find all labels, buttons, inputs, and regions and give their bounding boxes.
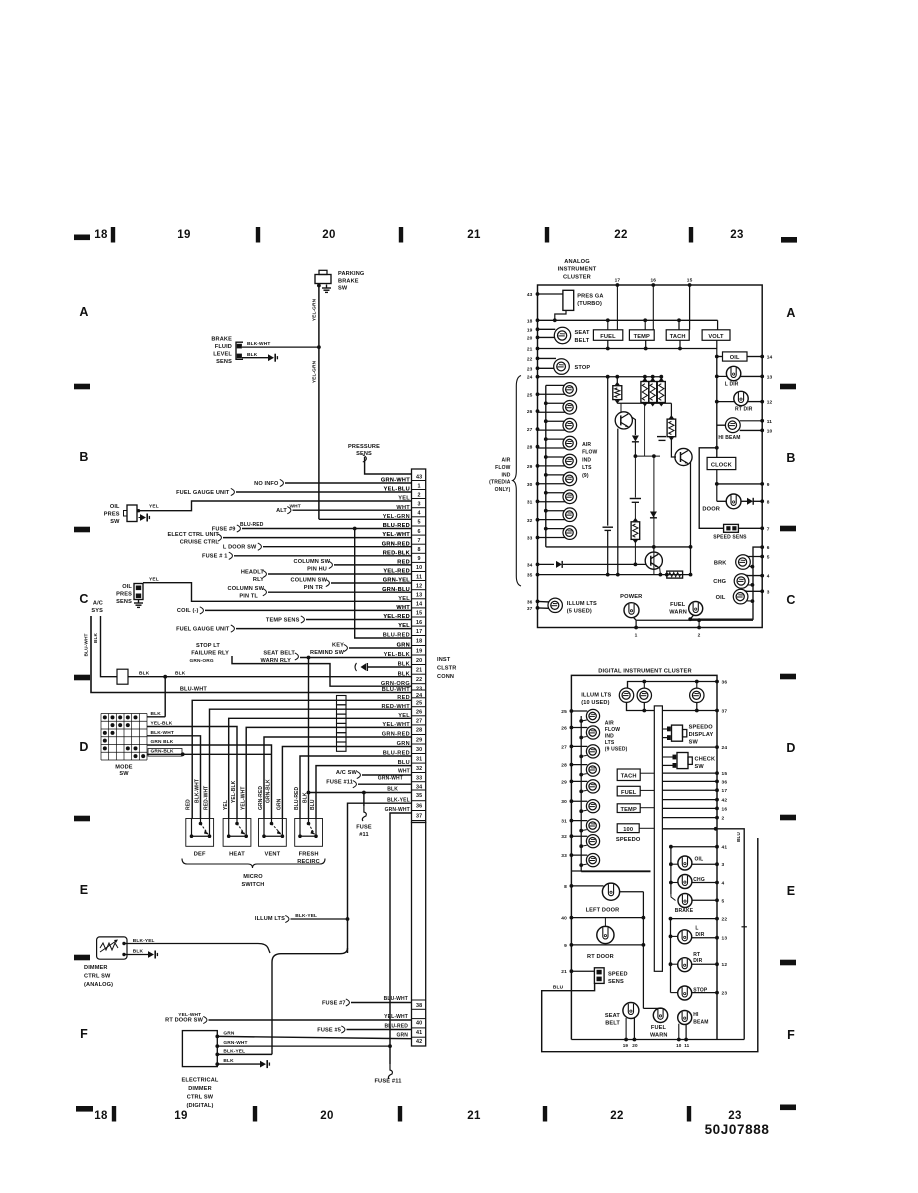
svg-text:HI BEAM: HI BEAM	[718, 435, 740, 441]
svg-text:ALT: ALT	[276, 508, 287, 514]
digital 100 SPEEDO box	[617, 824, 639, 833]
door lamp	[726, 494, 741, 509]
pin 17 line	[662, 789, 717, 791]
svg-text:15: 15	[722, 771, 728, 777]
svg-text:STOP: STOP	[693, 988, 708, 994]
svg-text:STOP: STOP	[575, 365, 591, 371]
pin 14 cell	[412, 598, 426, 600]
digital L DIR lamp	[678, 930, 692, 944]
pin 2 line	[662, 817, 717, 819]
svg-text:BLU: BLU	[553, 985, 564, 991]
svg-text:36: 36	[416, 804, 422, 810]
seat belt lamp	[554, 327, 570, 343]
pin 22 cell	[412, 673, 426, 675]
pin 11 cell	[412, 571, 426, 573]
svg-text:COIL (-): COIL (-)	[177, 608, 199, 614]
pin 5 cell	[412, 516, 426, 518]
svg-text:BLK: BLK	[223, 1058, 234, 1064]
micro switch VENT	[259, 819, 287, 847]
svg-text:36: 36	[527, 599, 533, 605]
pin 41 line	[671, 846, 717, 848]
svg-text:RED: RED	[397, 560, 410, 566]
svg-text:34: 34	[527, 562, 533, 568]
svg-text:BLK: BLK	[175, 671, 186, 677]
svg-text:FUSE #11: FUSE #11	[374, 1079, 401, 1085]
svg-text:GRN-ORG: GRN-ORG	[381, 681, 410, 687]
pin 13 cell	[412, 589, 426, 591]
svg-text:32: 32	[416, 766, 422, 772]
svg-text:FAILURE RLY: FAILURE RLY	[191, 651, 229, 657]
svg-text:D: D	[786, 741, 795, 755]
svg-text:OIL: OIL	[122, 584, 132, 590]
svg-text:30: 30	[416, 747, 422, 753]
connector INST CLSTR CONN lower body	[412, 823, 426, 1047]
row dashes left	[74, 384, 90, 390]
svg-text:42: 42	[416, 1039, 422, 1045]
wire pin 10	[334, 564, 412, 566]
svg-text:21: 21	[416, 667, 422, 673]
wire pin 36 BLK-YEL to illum lts	[348, 803, 412, 953]
svg-text:SW: SW	[119, 771, 129, 777]
svg-text:CLOCK: CLOCK	[711, 462, 733, 468]
svg-text:COLUMN SW: COLUMN SW	[291, 577, 328, 583]
svg-text:5: 5	[722, 898, 725, 904]
svg-text:BLU-RED: BLU-RED	[294, 787, 300, 810]
svg-text:21: 21	[561, 969, 567, 975]
svg-text:100: 100	[623, 827, 633, 833]
svg-text:19: 19	[527, 327, 533, 333]
digital air flow lamps	[580, 716, 582, 872]
svg-text:ILLUM LTS: ILLUM LTS	[581, 693, 611, 699]
svg-text:42: 42	[722, 798, 728, 804]
micro switch FRESH RECIRC	[295, 819, 323, 847]
wire BLK elect dimmer to ground	[215, 1062, 219, 1066]
svg-text:BLK: BLK	[133, 949, 144, 955]
svg-text:B: B	[786, 451, 795, 465]
svg-text:YEL: YEL	[149, 576, 159, 582]
svg-text:16: 16	[650, 278, 656, 284]
parking brake switch	[315, 275, 331, 284]
svg-text:31: 31	[527, 499, 533, 505]
svg-text:29: 29	[416, 737, 422, 743]
svg-text:26: 26	[527, 409, 533, 415]
svg-text:YEL-BLK: YEL-BLK	[384, 652, 410, 658]
svg-text:PRES: PRES	[116, 591, 132, 597]
wire GRN elect dimmer to pin 42	[215, 1035, 219, 1039]
svg-text:40: 40	[561, 916, 567, 922]
svg-text:18: 18	[94, 1110, 108, 1122]
svg-text:(10 USED): (10 USED)	[581, 700, 609, 706]
svg-text:26: 26	[416, 710, 422, 716]
digital air flow lamp 6	[586, 800, 599, 813]
svg-text:CLSTR: CLSTR	[437, 666, 456, 672]
wire BLK A/C sys to pin 22	[101, 616, 412, 677]
svg-text:LEVEL: LEVEL	[213, 351, 232, 357]
svg-text:BLK: BLK	[139, 671, 150, 677]
digital air flow lamp 8	[586, 835, 599, 848]
svg-text:3: 3	[418, 501, 421, 507]
svg-text:L DIR: L DIR	[725, 382, 739, 388]
svg-text:50J07888: 50J07888	[705, 1122, 770, 1137]
svg-text:GRN: GRN	[223, 1030, 234, 1036]
row dashes right	[780, 384, 796, 390]
svg-text:LEFT DOOR: LEFT DOOR	[586, 908, 620, 914]
svg-text:GRN-WHT: GRN-WHT	[381, 478, 410, 484]
svg-text:21: 21	[467, 229, 481, 241]
svg-text:BLU-RED: BLU-RED	[240, 522, 264, 528]
svg-text:PRES: PRES	[104, 511, 120, 517]
svg-text:1: 1	[635, 633, 638, 639]
svg-text:30: 30	[527, 482, 533, 488]
svg-text:F: F	[80, 1027, 88, 1041]
pin 31 cell	[412, 753, 426, 755]
svg-text:RED-WHT: RED-WHT	[204, 786, 210, 810]
svg-text:14: 14	[767, 355, 773, 361]
svg-text:GRN: GRN	[397, 643, 410, 649]
svg-text:GRN-RED: GRN-RED	[258, 786, 264, 810]
wire from illum down to dimmer curve	[272, 948, 348, 1050]
svg-text:7: 7	[418, 538, 421, 544]
svg-text:COLUMN SW: COLUMN SW	[228, 586, 265, 592]
svg-text:SEAT BELT: SEAT BELT	[263, 651, 295, 657]
speed sens analog	[724, 524, 739, 532]
svg-text:35: 35	[416, 793, 422, 799]
svg-text:ANALOG: ANALOG	[564, 259, 590, 265]
svg-text:RED-BLK: RED-BLK	[383, 550, 410, 556]
wire BLK-YEL elect dimmer	[215, 1053, 219, 1057]
svg-text:YEL: YEL	[398, 713, 410, 719]
pin 26 cell	[412, 706, 426, 708]
svg-text:YEL: YEL	[398, 596, 410, 602]
analog cluster box	[538, 285, 763, 628]
svg-text:FLOW: FLOW	[495, 465, 510, 471]
svg-text:DIR: DIR	[693, 958, 702, 964]
wire pin 31 to micro switch	[300, 756, 412, 819]
svg-text:WHT: WHT	[398, 769, 410, 775]
rail pin 21	[538, 348, 717, 350]
wire pin 37 GRN-WHT down to dimmer	[390, 813, 412, 1046]
svg-text:24: 24	[527, 375, 533, 381]
svg-text:FUEL GAUGE UNIT: FUEL GAUGE UNIT	[176, 490, 230, 496]
svg-text:18: 18	[416, 638, 422, 644]
air flow lamp 8	[563, 508, 577, 522]
svg-text:DIR: DIR	[695, 932, 704, 938]
ILLUM LTS lamp analog	[548, 598, 562, 612]
svg-text:(ANALOG): (ANALOG)	[84, 982, 113, 988]
svg-text:23: 23	[730, 229, 743, 241]
pin 4 cell	[412, 507, 426, 509]
svg-text:FUSE #7: FUSE #7	[322, 1000, 346, 1006]
svg-text:STOP LT: STOP LT	[196, 643, 220, 649]
digital OIL lamp	[678, 856, 692, 870]
svg-text:FRESH: FRESH	[299, 852, 319, 858]
rail pin 18	[538, 319, 718, 321]
svg-text:BLU-RED: BLU-RED	[383, 751, 410, 757]
svg-text:33: 33	[527, 536, 533, 542]
svg-text:C: C	[79, 592, 88, 606]
svg-text:ILLUM LTS: ILLUM LTS	[567, 601, 597, 607]
svg-text:(DIGITAL): (DIGITAL)	[186, 1103, 213, 1109]
fuse #11 bottom	[389, 1046, 391, 1064]
svg-text:21: 21	[527, 347, 533, 353]
svg-text:#11: #11	[359, 832, 368, 838]
svg-text:SENS: SENS	[116, 599, 132, 605]
svg-text:MODE: MODE	[115, 764, 133, 770]
meter TACH	[666, 330, 689, 341]
svg-text:CHG: CHG	[713, 579, 726, 585]
svg-text:20: 20	[632, 1043, 638, 1048]
svg-text:19: 19	[174, 1110, 187, 1122]
digital TACH box	[617, 769, 640, 781]
svg-text:BLU-RED: BLU-RED	[383, 523, 410, 529]
svg-text:GRN: GRN	[396, 1033, 408, 1039]
svg-text:OIL: OIL	[730, 355, 740, 361]
svg-text:BLU: BLU	[310, 799, 316, 810]
svg-text:9: 9	[418, 556, 421, 562]
svg-text:BLK: BLK	[303, 792, 309, 803]
svg-text:IND: IND	[605, 734, 614, 740]
svg-text:19: 19	[416, 648, 422, 654]
speedo display sw	[662, 728, 668, 730]
svg-text:BLK-WHT: BLK-WHT	[151, 730, 174, 736]
svg-text:GRN-RED: GRN-RED	[382, 541, 410, 547]
svg-text:37: 37	[722, 709, 728, 715]
BRK lamp	[736, 555, 751, 570]
svg-text:37: 37	[416, 813, 422, 819]
svg-text:CHECK: CHECK	[695, 757, 716, 763]
svg-text:21: 21	[467, 1110, 481, 1122]
svg-text:YEL-RED: YEL-RED	[383, 569, 410, 575]
pin 15 cell	[412, 607, 426, 609]
svg-text:29: 29	[561, 779, 567, 785]
svg-text:YEL: YEL	[149, 504, 159, 510]
svg-text:28: 28	[416, 728, 422, 734]
svg-text:12: 12	[767, 400, 773, 406]
svg-text:PIN TL: PIN TL	[239, 594, 258, 600]
wire pin 35 BLK	[309, 792, 412, 794]
wire pin 27 to micro switch	[229, 718, 412, 818]
micro switch DEF	[186, 819, 214, 847]
svg-text:BLU-RED: BLU-RED	[383, 633, 410, 639]
digital section divider	[571, 870, 650, 872]
pin 12 cell	[412, 580, 426, 582]
svg-text:GRN-WHT: GRN-WHT	[223, 1040, 247, 1046]
body ground elect dimmer	[260, 1061, 266, 1068]
svg-text:AIR: AIR	[605, 721, 614, 727]
wire YEL-GRN parking brake to pin 5	[318, 284, 320, 520]
svg-text:SPEEDO: SPEEDO	[689, 724, 714, 730]
pin 19 cell	[412, 645, 426, 647]
pin 10 cell	[412, 561, 426, 563]
svg-text:13: 13	[767, 374, 773, 380]
pin 17 cell	[412, 625, 426, 627]
wire pin 2 FUEL GAUGE UNIT	[236, 491, 412, 493]
bottom return line	[636, 619, 753, 621]
svg-text:14: 14	[416, 602, 422, 608]
diode door lamp	[747, 498, 753, 505]
wire BLU-WHT A/C sys to pin 24	[91, 616, 412, 693]
svg-text:L DOOR SW: L DOOR SW	[223, 545, 257, 551]
svg-text:WARN: WARN	[669, 610, 687, 616]
svg-text:8: 8	[418, 547, 421, 553]
svg-text:31: 31	[416, 756, 422, 762]
svg-text:CTRL SW: CTRL SW	[187, 1095, 214, 1101]
svg-text:DEF: DEF	[194, 852, 206, 858]
svg-text:LTS: LTS	[605, 740, 615, 746]
micro switch HEAT	[223, 819, 251, 847]
branch capacitor C3 and resistor R6	[634, 456, 636, 497]
pin 2 cell	[412, 489, 426, 491]
meter TEMP	[629, 330, 654, 341]
digital outer BLU loop	[542, 838, 758, 1052]
digital BRAKE lamp	[678, 894, 692, 908]
digital CHG lamp	[678, 875, 692, 889]
svg-text:A: A	[79, 305, 88, 319]
transistor Q3	[645, 552, 662, 569]
svg-text:6: 6	[418, 529, 421, 535]
meter FUEL	[593, 330, 622, 341]
digital RT DIR lamp	[678, 958, 692, 972]
pin 33 cell	[412, 772, 426, 774]
svg-text:SW: SW	[338, 286, 348, 292]
svg-text:DIMMER: DIMMER	[188, 1086, 212, 1092]
svg-text:E: E	[80, 883, 89, 897]
inline connector column on rows 25-30	[337, 696, 347, 705]
illum lamp 1	[619, 688, 633, 702]
pin 18 cell	[412, 635, 426, 637]
svg-text:B: B	[79, 450, 88, 464]
digital RT DOOR lamp	[597, 926, 614, 943]
svg-text:RT DOOR: RT DOOR	[587, 954, 614, 960]
svg-text:OIL: OIL	[716, 595, 726, 601]
svg-text:YEL-GRN: YEL-GRN	[311, 298, 317, 321]
analog bottom pins 1 2	[634, 626, 638, 630]
svg-text:8: 8	[564, 884, 567, 890]
svg-text:10: 10	[767, 428, 773, 434]
air flow bus bottom	[546, 546, 691, 548]
svg-text:PRES GA: PRES GA	[577, 294, 603, 300]
svg-text:BRAKE: BRAKE	[211, 337, 232, 343]
svg-text:BLK-YEL: BLK-YEL	[295, 913, 317, 919]
svg-text:12: 12	[722, 962, 728, 968]
svg-text:31: 31	[561, 819, 567, 825]
pin 15 line	[662, 772, 717, 774]
tredia brace	[513, 376, 521, 587]
wire pin 19	[349, 647, 412, 649]
svg-text:KEY: KEY	[332, 643, 344, 649]
clock box	[707, 457, 736, 469]
svg-text:BLK: BLK	[398, 671, 410, 677]
svg-text:24: 24	[722, 745, 728, 751]
mode switch matrix	[100, 714, 102, 761]
svg-text:IND: IND	[501, 472, 510, 478]
svg-text:28: 28	[527, 445, 533, 451]
svg-text:PIN HU: PIN HU	[307, 566, 327, 572]
pin 16 cell	[412, 616, 426, 618]
svg-text:ELECT CTRL UNIT: ELECT CTRL UNIT	[167, 532, 219, 538]
svg-text:1: 1	[418, 483, 421, 489]
svg-text:22: 22	[722, 917, 728, 923]
svg-text:LTS: LTS	[582, 465, 592, 471]
svg-text:ONLY): ONLY)	[495, 487, 511, 493]
digital warn lamps left rail	[670, 847, 672, 894]
svg-text:YEL-BLK: YEL-BLK	[231, 780, 237, 803]
wire pin 25 to micro switch	[192, 700, 411, 818]
svg-text:22: 22	[614, 229, 627, 241]
wire pin 16 TEMP SENS	[306, 619, 412, 621]
svg-text:INST: INST	[437, 657, 451, 663]
svg-text:CTRL SW: CTRL SW	[84, 974, 111, 980]
svg-text:GRN-BLU: GRN-BLU	[382, 587, 410, 593]
svg-text:BRK: BRK	[714, 561, 727, 567]
svg-text:SW: SW	[110, 519, 120, 525]
svg-text:(TREDIA: (TREDIA	[489, 480, 511, 486]
node line 456	[635, 455, 660, 457]
vertical to diode D2	[653, 456, 655, 574]
svg-text:32: 32	[561, 834, 567, 840]
svg-text:BLK: BLK	[151, 711, 162, 717]
resistor R1	[616, 377, 618, 386]
svg-text:2: 2	[722, 816, 725, 822]
meter top stubs	[616, 285, 618, 330]
wire pin 17 FUEL GAUGE UNIT	[236, 628, 412, 630]
svg-text:YEL-WHT: YEL-WHT	[240, 787, 246, 810]
svg-text:(TURBO): (TURBO)	[577, 301, 602, 307]
svg-text:HEAT: HEAT	[229, 852, 245, 858]
digital air flow lamp 5	[586, 780, 599, 793]
svg-text:BLK: BLK	[398, 662, 410, 668]
diode D2	[650, 512, 657, 518]
pin 21 cell	[412, 664, 426, 666]
wire pressure sens to pin 43	[365, 457, 412, 474]
pin 29 cell	[412, 734, 426, 736]
air flow lamps column	[545, 385, 547, 547]
svg-text:DIGITAL INSTRUMENT CLUSTER: DIGITAL INSTRUMENT CLUSTER	[598, 668, 691, 674]
svg-text:HEADLT: HEADLT	[241, 569, 265, 575]
pin 37 cell	[412, 810, 426, 812]
svg-text:28: 28	[561, 763, 567, 769]
FUEL WARN lamp	[689, 602, 703, 616]
wire BLK seat belt warn to fresh recirc switch	[308, 658, 310, 819]
svg-text:26: 26	[561, 726, 567, 732]
svg-text:43: 43	[416, 474, 422, 480]
svg-text:DISPLAY: DISPLAY	[689, 732, 714, 738]
svg-text:VENT: VENT	[265, 852, 281, 858]
pin 8 cell	[412, 543, 426, 545]
svg-text:2: 2	[418, 492, 421, 498]
svg-text:25: 25	[416, 701, 422, 707]
digital STOP lamp	[678, 986, 692, 1000]
left door vertical	[642, 892, 644, 1009]
svg-text:19: 19	[623, 1043, 629, 1048]
condenser on pin 21	[361, 663, 367, 670]
svg-text:BRAKE: BRAKE	[675, 908, 694, 914]
svg-text:40: 40	[416, 1020, 422, 1026]
svg-text:15: 15	[687, 278, 693, 284]
svg-text:3: 3	[767, 589, 770, 595]
warning OIL box	[723, 352, 748, 361]
svg-text:TEMP SENS: TEMP SENS	[266, 617, 300, 623]
meter VOLT	[702, 330, 730, 341]
svg-text:REMIND SW: REMIND SW	[310, 650, 345, 656]
body ground dimmer analog	[148, 951, 154, 958]
svg-text:BLK-YEL: BLK-YEL	[387, 797, 410, 803]
digital HI BEAM lamp	[678, 1011, 692, 1025]
svg-text:AIR: AIR	[582, 442, 591, 448]
pin 35 cell	[412, 789, 426, 791]
svg-text:A/C: A/C	[93, 601, 103, 607]
svg-text:PARKING: PARKING	[338, 271, 364, 277]
